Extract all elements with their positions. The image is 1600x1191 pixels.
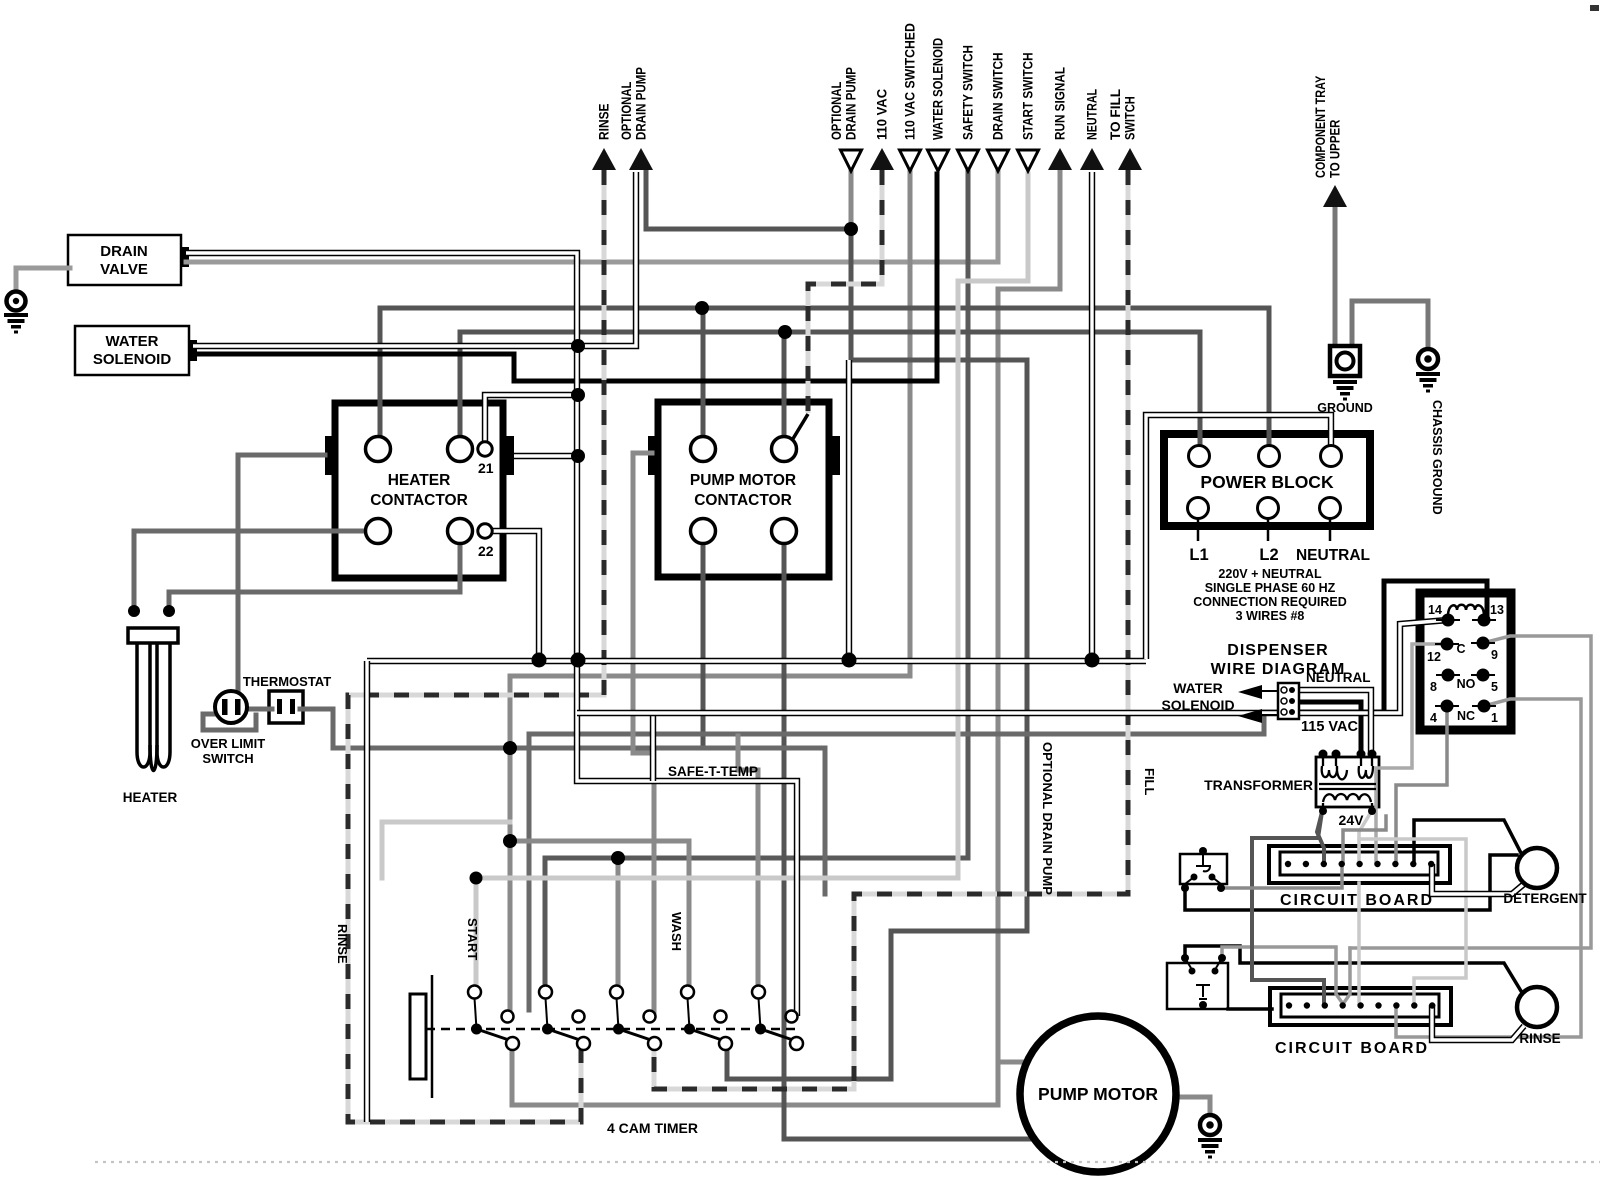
svg-text:DISPENSER: DISPENSER bbox=[1227, 642, 1328, 659]
svg-text:RINSE: RINSE bbox=[1519, 1031, 1560, 1046]
svg-text:COMPONENT TRAY: COMPONENT TRAY bbox=[1313, 76, 1328, 178]
wire cb1 pin9 to detergent (white wire) bbox=[1432, 864, 1524, 894]
page artifact dotted line bbox=[95, 1161, 1600, 1163]
svg-text:VALVE: VALVE bbox=[100, 261, 148, 278]
svg-text:5: 5 bbox=[1491, 680, 1498, 694]
junction junction start lt bbox=[470, 872, 483, 885]
svg-text:14: 14 bbox=[1428, 603, 1442, 617]
svg-text:SINGLE PHASE 60 HZ: SINGLE PHASE 60 HZ bbox=[1205, 581, 1336, 595]
arrow 110 VAC bbox=[870, 148, 894, 170]
svg-text:HEATER: HEATER bbox=[123, 790, 178, 805]
arrow NEUTRAL arrow bbox=[1080, 148, 1104, 170]
junction junction D x702 bbox=[695, 301, 709, 315]
svg-text:L1: L1 bbox=[1189, 546, 1208, 564]
svg-text:SOLENOID: SOLENOID bbox=[93, 351, 172, 368]
wire drain valve white wire (white wire) bbox=[186, 253, 577, 713]
wire relay pin9 wire bbox=[1350, 636, 1591, 948]
wire fill dashed net (dashed) bbox=[654, 170, 1128, 1089]
arrow TO FILL SWITCH bbox=[1118, 148, 1142, 170]
svg-text:THERMOSTAT: THERMOSTAT bbox=[243, 674, 331, 689]
svg-text:FILL: FILL bbox=[1142, 768, 1157, 795]
svg-text:12: 12 bbox=[1427, 650, 1441, 664]
junction junction 110switched y841 bbox=[503, 834, 517, 848]
power block note bbox=[1193, 567, 1346, 623]
wire optional drain pump arrow stem bbox=[849, 172, 854, 229]
arrow START SWITCH bbox=[1018, 150, 1039, 171]
wire float switch 2 to rinse black bbox=[1185, 946, 1524, 996]
timer switch 1 bbox=[468, 986, 519, 1051]
arrow 110 VAC SWITCHED bbox=[900, 150, 921, 171]
wire cb2 pin9 to rinse (white wire) bbox=[1432, 1005, 1524, 1040]
wire 110 VAC SWITCHED net bbox=[510, 172, 910, 1014]
junction junction white x577 y456 bbox=[571, 449, 585, 463]
junction junction neutral bus x849 bbox=[842, 653, 857, 668]
svg-text:CHASSIS GROUND: CHASSIS GROUND bbox=[1430, 400, 1444, 515]
arrow DRAIN SWITCH bbox=[988, 150, 1009, 171]
wire transformer to cb1 pin3 bbox=[1317, 812, 1324, 864]
wire pump contactor BR pin to pump motor bbox=[784, 531, 1041, 1139]
wire sw3 top feed bbox=[616, 858, 621, 992]
wire lt y822 bbox=[382, 820, 510, 825]
timer switch 4 bbox=[681, 986, 732, 1051]
circuit board 2 pins bbox=[1286, 1002, 1436, 1008]
svg-text:115 VAC: 115 VAC bbox=[1301, 719, 1358, 735]
svg-text:110 VAC SWITCHED: 110 VAC SWITCHED bbox=[903, 23, 918, 140]
power block pins and label bbox=[1188, 446, 1342, 542]
wire 24V light branch to cb2 pin8 bbox=[1359, 839, 1466, 1005]
svg-text:3 WIRES #8: 3 WIRES #8 bbox=[1236, 609, 1305, 623]
wire optional drain pump long net bbox=[851, 229, 1027, 1079]
arrow OPTIONAL DRAIN PUMP mid bbox=[841, 150, 862, 171]
wire heater 22 white wire (white wire) bbox=[485, 531, 539, 657]
svg-text:C: C bbox=[1456, 642, 1465, 656]
wire relay pin4 wire bbox=[1396, 706, 1447, 864]
wire relay pin1 wire bbox=[1396, 699, 1581, 1037]
svg-text:RUN SIGNAL: RUN SIGNAL bbox=[1053, 67, 1068, 140]
junction junction white x577 y395 bbox=[571, 388, 585, 402]
wire transformer to cb2 pin3 bbox=[1252, 812, 1324, 1005]
over limit switch bbox=[191, 691, 265, 766]
wire pump contactor TR pin wire bbox=[782, 332, 787, 449]
svg-text:DRAIN: DRAIN bbox=[100, 243, 148, 260]
svg-text:24V: 24V bbox=[1339, 812, 1365, 828]
svg-text:8: 8 bbox=[1430, 680, 1437, 694]
svg-text:L2: L2 bbox=[1259, 546, 1278, 564]
svg-text:OVER LIMIT: OVER LIMIT bbox=[191, 736, 265, 751]
wire water solenoid white wire (white wire) bbox=[193, 172, 636, 346]
arrows to water solenoid bbox=[1238, 685, 1282, 723]
wire neutral left drop white wire (white wire) bbox=[364, 661, 370, 1122]
svg-text:NEUTRAL: NEUTRAL bbox=[1296, 547, 1370, 564]
ground symbol top right bbox=[1317, 346, 1373, 415]
wire float switch 2 to circuit board 2 bbox=[1228, 1007, 1272, 1011]
wire wire D heater contactor to L2 bbox=[380, 308, 1269, 456]
svg-text:GROUND: GROUND bbox=[1317, 401, 1373, 415]
wire 24V gray jog to cb1 pin4 bbox=[1343, 816, 1386, 864]
chassis ground symbol bbox=[1416, 349, 1444, 515]
junction junction optional drain pump bbox=[844, 222, 858, 236]
thermostat details bbox=[243, 674, 331, 714]
wire to upper component tray stem bbox=[1333, 208, 1338, 346]
wire cb1 pin5 to cb2 pin5 bbox=[1357, 883, 1361, 1005]
svg-text:NC: NC bbox=[1457, 709, 1475, 723]
wire run signal net bbox=[512, 172, 1060, 1105]
dispenser wire diagram title bbox=[1211, 642, 1346, 678]
wire float switch 1 to detergent black bbox=[1185, 855, 1517, 910]
svg-text:WATER: WATER bbox=[1173, 680, 1223, 696]
float switch 1 body bbox=[1180, 854, 1227, 884]
pump motor ground bbox=[1198, 1115, 1222, 1159]
dispenser relay body bbox=[1420, 593, 1511, 730]
circuit board 1 body bbox=[1269, 846, 1450, 883]
wire chassis ground link bbox=[1352, 301, 1428, 350]
svg-text:13: 13 bbox=[1490, 603, 1504, 617]
svg-text:1: 1 bbox=[1491, 711, 1498, 725]
svg-text:SWITCH: SWITCH bbox=[202, 751, 253, 766]
svg-text:TO FILL: TO FILL bbox=[1108, 89, 1123, 140]
wire wire E heater contactor to L1 bbox=[460, 332, 1200, 456]
wire safe-t-temp branch (white wire) bbox=[650, 713, 656, 781]
float switch 2 details bbox=[1181, 954, 1226, 1009]
wire start lt branch bbox=[380, 822, 385, 878]
junction junction white x577 y346 bbox=[571, 339, 585, 353]
wire drain valve to drain switch arrow bbox=[186, 172, 998, 262]
timer switch 3 bbox=[610, 986, 661, 1051]
wire heater 21 white wire (white wire) bbox=[485, 395, 577, 449]
svg-text:NEUTRAL: NEUTRAL bbox=[1085, 89, 1100, 140]
wire thermostat long net bbox=[300, 709, 825, 894]
svg-text:4: 4 bbox=[1430, 711, 1437, 725]
pump motor contactor pins and label bbox=[690, 414, 808, 544]
wire heater contactor BL to heater bbox=[134, 531, 378, 608]
svg-text:SAFETY SWITCH: SAFETY SWITCH bbox=[961, 45, 976, 140]
wire relay pin14 white wire (white wire) bbox=[577, 620, 1448, 713]
svg-text:NO: NO bbox=[1457, 677, 1476, 691]
svg-text:22: 22 bbox=[478, 543, 494, 559]
rinse dispenser bbox=[1517, 987, 1561, 1046]
junction junction y856 bbox=[611, 851, 625, 865]
wire rinse dashed net (dashed) bbox=[348, 170, 604, 1122]
wire pump contactor tab to timer area (wash) bbox=[633, 453, 654, 1012]
drain valve body bbox=[68, 235, 189, 285]
wire wire A optional drain pump feed bbox=[646, 172, 849, 229]
svg-text:DRAIN PUMP: DRAIN PUMP bbox=[844, 67, 859, 140]
dispenser relay pins and labels bbox=[1427, 603, 1504, 725]
wire relay pin12 wire bbox=[1376, 644, 1447, 864]
wire water solenoid black wire bbox=[193, 174, 937, 381]
svg-text:CIRCUIT BOARD: CIRCUIT BOARD bbox=[1280, 892, 1434, 909]
wire optional drain pump neutral drop (white wire) bbox=[846, 360, 852, 659]
timer cam line bbox=[426, 1028, 800, 1031]
svg-text:9: 9 bbox=[1491, 648, 1498, 662]
transformer body bbox=[1316, 757, 1379, 807]
wire over limit loop bbox=[203, 714, 256, 730]
pump motor bbox=[1020, 1016, 1176, 1172]
svg-text:21: 21 bbox=[478, 460, 494, 476]
arrow SAFETY SWITCH bbox=[958, 150, 979, 171]
wire power block neutral white wire (white wire) bbox=[1146, 415, 1331, 659]
arrow RUN SIGNAL bbox=[1048, 148, 1072, 170]
heater element bbox=[123, 628, 178, 805]
water solenoid body bbox=[75, 326, 197, 375]
wire sw4 lower to optional drain pump bbox=[727, 1044, 891, 1079]
wire transformer primary black wire bbox=[1292, 702, 1361, 754]
svg-text:HEATER: HEATER bbox=[388, 472, 451, 489]
circuit board 1 pins bbox=[1285, 861, 1435, 867]
junction junction thermostat 110switched bbox=[503, 741, 517, 755]
svg-text:WASH: WASH bbox=[669, 912, 684, 951]
wire cb1 pin8 to detergent black bbox=[1414, 820, 1521, 864]
svg-text:110 VAC: 110 VAC bbox=[875, 89, 890, 140]
wire timer gray y841 bbox=[510, 841, 689, 992]
svg-text:START SWITCH: START SWITCH bbox=[1021, 52, 1036, 140]
drain valve label bbox=[100, 243, 148, 278]
svg-text:CONNECTION REQUIRED: CONNECTION REQUIRED bbox=[1193, 595, 1346, 609]
junction junction heater pin1 bbox=[128, 605, 140, 617]
wire heater contactor left tab to over limit switch bbox=[238, 455, 325, 701]
wire dispenser neutral white wire (white wire) bbox=[1292, 690, 1371, 754]
svg-text:CONTACTOR: CONTACTOR bbox=[694, 492, 792, 509]
svg-text:OPTIONAL: OPTIONAL bbox=[619, 82, 634, 140]
svg-text:4 CAM TIMER: 4 CAM TIMER bbox=[607, 1120, 698, 1136]
wire neutral bus white wire (white wire) bbox=[367, 658, 1146, 664]
junction junction E x785 bbox=[778, 325, 792, 339]
wire start switch net bbox=[476, 174, 1028, 992]
wire pump contactor TL pin wire bbox=[701, 308, 706, 449]
arrow TO UPPER COMPONENT TRAY bbox=[1323, 185, 1347, 207]
wire 115 VAC drop to timer bbox=[527, 734, 532, 1010]
svg-text:START: START bbox=[465, 918, 480, 960]
wire heater right tab white wire (white wire) bbox=[514, 453, 577, 459]
wire safe-t-temp white wire (white wire) bbox=[577, 713, 797, 1016]
arrow WATER SOLENOID arrow bbox=[928, 150, 949, 171]
timer switch 5 bbox=[752, 986, 803, 1051]
wire sw5 top feed bbox=[738, 736, 758, 992]
wire pump motor to ground bbox=[1176, 1097, 1210, 1116]
svg-text:TO UPPER: TO UPPER bbox=[1328, 119, 1343, 178]
chassis ground left bbox=[4, 292, 28, 334]
water solenoid label bbox=[93, 333, 172, 368]
timer switch 2 bbox=[539, 986, 590, 1051]
junction junction heater pin2 bbox=[163, 605, 175, 617]
svg-text:PUMP MOTOR: PUMP MOTOR bbox=[690, 472, 796, 489]
svg-text:OPTIONAL: OPTIONAL bbox=[829, 82, 844, 140]
svg-text:WATER: WATER bbox=[105, 333, 158, 350]
wire run signal to pump motor bbox=[998, 1060, 1050, 1065]
svg-text:CONTACTOR: CONTACTOR bbox=[370, 492, 468, 509]
svg-text:RINSE: RINSE bbox=[597, 104, 612, 141]
dispenser connector bbox=[1278, 683, 1299, 719]
water solenoid (dispenser) label bbox=[1161, 680, 1234, 713]
svg-text:SWITCH: SWITCH bbox=[1123, 96, 1138, 140]
svg-text:DRAIN PUMP: DRAIN PUMP bbox=[634, 67, 649, 140]
svg-text:SAFE-T-TEMP: SAFE-T-TEMP bbox=[668, 764, 758, 779]
svg-text:POWER BLOCK: POWER BLOCK bbox=[1200, 472, 1334, 492]
circuit board 2 body bbox=[1270, 988, 1451, 1025]
wire pump contactor BL pin wire bbox=[701, 531, 706, 748]
wire cb2 V wire bbox=[1222, 947, 1350, 1004]
svg-text:WATER SOLENOID: WATER SOLENOID bbox=[931, 38, 946, 140]
timer plate bbox=[410, 975, 432, 1098]
svg-text:DRAIN SWITCH: DRAIN SWITCH bbox=[991, 52, 1006, 140]
pump motor contactor body bbox=[648, 402, 840, 577]
svg-text:SOLENOID: SOLENOID bbox=[1161, 697, 1234, 713]
wire heater contactor BR to heater bbox=[169, 531, 460, 608]
heater contactor body bbox=[325, 403, 514, 578]
wire drain valve to ground bbox=[16, 268, 70, 291]
arrow OPTIONAL DRAIN PUMP left bbox=[629, 148, 653, 170]
svg-text:RINSE: RINSE bbox=[335, 924, 350, 964]
junction junction neutral bus x539 bbox=[532, 653, 547, 668]
thermostat body bbox=[269, 691, 303, 723]
float switch 1 details bbox=[1181, 847, 1225, 892]
svg-text:220V + NEUTRAL: 220V + NEUTRAL bbox=[1218, 567, 1322, 581]
detergent dispenser bbox=[1503, 848, 1587, 906]
svg-text:PUMP MOTOR: PUMP MOTOR bbox=[1038, 1084, 1158, 1104]
wire 115 VAC long horizontal bbox=[529, 712, 1281, 734]
svg-text:DETERGENT: DETERGENT bbox=[1503, 891, 1587, 906]
junction junction neutral bus x577 bbox=[571, 653, 586, 668]
svg-text:TRANSFORMER: TRANSFORMER bbox=[1204, 777, 1313, 793]
svg-text:NEUTRAL: NEUTRAL bbox=[1306, 670, 1371, 685]
svg-text:CIRCUIT BOARD: CIRCUIT BOARD bbox=[1275, 1040, 1429, 1057]
heater contactor pins and label bbox=[366, 437, 494, 560]
wire over limit to thermostat bbox=[245, 707, 272, 712]
arrow RINSE bbox=[592, 148, 616, 170]
wire float switch1 to cb1 pin4 bbox=[1221, 864, 1342, 888]
wire safety switch net bbox=[545, 172, 968, 992]
transformer details bbox=[1204, 750, 1376, 829]
float switch 2 body bbox=[1167, 963, 1228, 1009]
junction junction neutral bus x1092 bbox=[1085, 653, 1100, 668]
svg-text:OPTIONAL DRAIN PUMP: OPTIONAL DRAIN PUMP bbox=[1040, 742, 1055, 895]
power block body bbox=[1164, 434, 1370, 526]
wire relay pin13 black wire bbox=[1292, 581, 1487, 712]
wire transformer to cb1 pin5 bbox=[1359, 812, 1371, 864]
wire neutral arrow white wire (white wire) bbox=[1089, 172, 1095, 659]
wire 110 vac dashed net (dashed) bbox=[808, 170, 882, 413]
page artifact top right mark bbox=[1590, 5, 1599, 11]
